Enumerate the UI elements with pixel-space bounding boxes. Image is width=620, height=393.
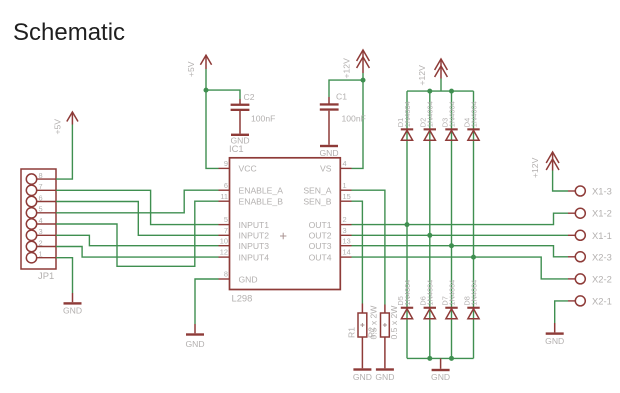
terminal X1-1 (568, 230, 612, 241)
svg-text:GND: GND (63, 306, 82, 316)
svg-text:1N4004: 1N4004 (426, 101, 435, 127)
IC1 pin VCC 9 (219, 159, 257, 174)
terminal X1-2 (568, 208, 612, 219)
svg-text:13: 13 (343, 236, 351, 245)
diode D6 (419, 280, 436, 319)
svg-text:IC1: IC1 (229, 143, 244, 154)
terminal X2-1 (568, 295, 612, 306)
IC1 pin GND 8 (219, 270, 258, 285)
svg-text:X1-1: X1-1 (592, 230, 612, 241)
junction OUT2/D2 (427, 233, 432, 238)
svg-text:GND: GND (375, 372, 394, 382)
svg-text:GND: GND (431, 372, 450, 382)
svg-text:14: 14 (343, 248, 351, 257)
svg-text:JP1: JP1 (38, 270, 54, 281)
JP1 pin 7 pad (26, 182, 56, 195)
junction bus/D2 (427, 89, 432, 94)
IC1 origin cross (280, 233, 286, 239)
wire D3/D7 column (451, 91, 453, 358)
wire SEN_A to R2 (352, 190, 385, 304)
wire OUT1 to X1-2 (352, 213, 569, 224)
capacitor C1 (320, 92, 366, 145)
diode D7 (440, 280, 457, 319)
JP1 pin 4 pad (26, 216, 56, 229)
wire junction to C1 (329, 80, 363, 97)
wire OUT4 to X2-2 (352, 257, 569, 279)
svg-text:Schematic: Schematic (13, 19, 125, 46)
wire JP1.8 to +5V (56, 125, 72, 180)
svg-text:VCC: VCC (239, 164, 257, 174)
svg-text:INPUT1: INPUT1 (239, 220, 270, 230)
svg-text:6: 6 (224, 181, 228, 190)
diode D8 (462, 280, 479, 319)
svg-text:5: 5 (39, 205, 43, 214)
IC1 pin INPUT3 10 (219, 236, 270, 251)
svg-text:+12V: +12V (530, 157, 540, 178)
svg-text:+12V: +12V (417, 65, 427, 86)
wire OUT3 to X2-3 (352, 246, 569, 257)
svg-text:OUT4: OUT4 (309, 253, 332, 263)
svg-text:12: 12 (220, 248, 228, 257)
svg-text:1: 1 (39, 250, 43, 259)
JP1 pin 1 pad (26, 250, 56, 263)
svg-text:+5V: +5V (186, 61, 196, 77)
wire JP1.3 to INPUT3 (56, 235, 219, 245)
svg-text:GND: GND (185, 339, 204, 349)
ground below JP1 (63, 293, 82, 316)
svg-text:1N4004: 1N4004 (447, 101, 456, 127)
+12V supply symbol above diodes (417, 59, 447, 86)
ground below X2-1 (545, 323, 564, 346)
IC1 pin SEN_A 1 (303, 181, 351, 196)
svg-text:100nF: 100nF (342, 114, 366, 124)
svg-text:11: 11 (220, 192, 228, 201)
svg-text:3: 3 (39, 227, 43, 236)
svg-text:INPUT4: INPUT4 (239, 253, 270, 263)
IC1 pin VS 4 (320, 159, 351, 174)
diode D5 (396, 280, 413, 319)
terminal X2-2 (568, 273, 612, 284)
svg-text:9: 9 (224, 159, 228, 168)
IC1 pin OUT1 2 (309, 215, 352, 230)
svg-text:10: 10 (220, 236, 228, 245)
svg-text:ENABLE_A: ENABLE_A (239, 186, 284, 196)
wire D4/D8 column (473, 91, 475, 358)
resistor R1 (346, 304, 378, 369)
junction OUT1/D1 (405, 222, 410, 227)
svg-text:2: 2 (343, 215, 347, 224)
svg-text:1N4004: 1N4004 (447, 280, 456, 306)
svg-text:8: 8 (39, 171, 43, 180)
svg-text:6: 6 (39, 193, 43, 202)
wire +12V to X1-3 (553, 171, 568, 192)
svg-text:GND: GND (319, 148, 338, 158)
svg-text:R1: R1 (346, 327, 356, 338)
svg-text:4: 4 (343, 159, 347, 168)
wire +5V to IC1 VCC (206, 69, 219, 168)
diode D2 (419, 101, 436, 140)
wire SEN_B to R1 (352, 201, 363, 303)
svg-text:ENABLE_B: ENABLE_B (239, 197, 284, 207)
junction +12V/C1 (361, 78, 366, 83)
svg-text:R2: R2 (366, 327, 376, 338)
junction bus/D7 (449, 356, 454, 361)
junction OUT3/D3 (449, 243, 454, 248)
wire +12V diode bus (407, 90, 474, 92)
wire junction to C2 (206, 90, 240, 99)
svg-text:7: 7 (39, 182, 43, 191)
svg-text:OUT2: OUT2 (309, 231, 332, 241)
op IC1 L298 body (230, 158, 341, 290)
svg-text:1N4004: 1N4004 (403, 101, 412, 127)
ground below R1 (353, 368, 372, 382)
svg-text:L298: L298 (232, 293, 253, 304)
svg-text:INPUT2: INPUT2 (239, 231, 270, 241)
wire JP1.6 to INPUT2 (56, 202, 219, 236)
JP1 pin 2 pad (26, 238, 56, 251)
wire JP1.2 to INPUT4 (56, 247, 219, 258)
wire D1/D5 column (406, 91, 408, 358)
ground below IC1 (185, 324, 204, 349)
+12V supply symbol above C1 (342, 50, 370, 79)
svg-text:5: 5 (224, 215, 228, 224)
junction +5V/C2 (204, 88, 209, 93)
terminal X2-3 (568, 251, 612, 262)
ground below C2 (230, 134, 249, 146)
svg-text:INPUT3: INPUT3 (239, 241, 270, 251)
JP1 pin 5 pad (26, 205, 56, 218)
junction bus/D3 (449, 89, 454, 94)
diode D3 (440, 101, 457, 140)
svg-text:+5V: +5V (53, 119, 63, 135)
wire JP1.1 to ground (56, 258, 73, 293)
wire JP1.7 to INPUT1 (56, 190, 219, 224)
IC1 pin INPUT4 12 (219, 248, 270, 263)
wire X2-1 to ground (555, 301, 568, 323)
svg-text:0.5 x 2W: 0.5 x 2W (389, 305, 399, 340)
svg-text:8: 8 (224, 270, 228, 279)
ground below R2 (375, 368, 394, 382)
svg-text:OUT1: OUT1 (309, 220, 332, 230)
svg-text:X2-1: X2-1 (592, 295, 612, 306)
junction bus/D6 (427, 356, 432, 361)
svg-text:GND: GND (353, 372, 372, 382)
IC1 pin ENABLE_B 11 (219, 192, 284, 207)
svg-text:1N4004: 1N4004 (469, 280, 478, 306)
IC1 pin OUT4 14 (309, 248, 352, 263)
svg-text:+12V: +12V (342, 58, 352, 79)
wire IC1 GND to ground (195, 279, 219, 324)
svg-text:VS: VS (320, 164, 332, 174)
JP1 pin 3 pad (26, 227, 56, 240)
svg-text:GND: GND (545, 336, 564, 346)
IC1 pin OUT3 13 (309, 236, 352, 251)
+5V supply symbol at JP1 (53, 112, 79, 135)
svg-text:X2-2: X2-2 (592, 273, 612, 284)
svg-text:2: 2 (39, 238, 43, 247)
wire +12V to IC1 VS (352, 73, 364, 168)
IC1 pin INPUT2 7 (219, 226, 270, 241)
svg-text:GND: GND (239, 274, 258, 284)
svg-text:1N4004: 1N4004 (426, 280, 435, 306)
+12V supply symbol at X1-3 (530, 152, 559, 178)
svg-text:X2-3: X2-3 (592, 251, 612, 262)
svg-text:4: 4 (39, 216, 43, 225)
svg-text:X1-3: X1-3 (592, 186, 612, 197)
diode D1 (396, 101, 413, 140)
wire OUT2 to X1-1 (352, 234, 569, 236)
+5V supply symbol above C2 (186, 55, 212, 77)
resistor R2 (366, 305, 398, 369)
ground below diode bus (431, 358, 450, 382)
wire JP1.4 to ENABLE_B (56, 201, 219, 266)
svg-text:15: 15 (343, 192, 351, 201)
wire D2/D6 column (429, 91, 431, 358)
diode D4 (462, 101, 479, 140)
svg-text:X1-2: X1-2 (592, 208, 612, 219)
terminal X1-3 (568, 186, 612, 197)
svg-text:1N4004: 1N4004 (403, 280, 412, 306)
svg-text:100nF: 100nF (251, 114, 275, 124)
connector JP1 body (21, 169, 56, 269)
svg-text:C2: C2 (244, 92, 255, 102)
wire +12V to diode bus (440, 79, 442, 92)
IC1 pin SEN_B 15 (303, 192, 351, 207)
svg-text:1: 1 (343, 181, 347, 190)
ground below C1 (319, 145, 338, 158)
svg-text:7: 7 (224, 226, 228, 235)
IC1 pin INPUT1 5 (219, 215, 270, 230)
svg-text:OUT3: OUT3 (309, 241, 332, 251)
IC1 pin ENABLE_A 6 (219, 181, 284, 196)
wire JP1.5 to ENABLE_A (56, 190, 219, 213)
capacitor C2 (231, 92, 276, 134)
svg-text:C1: C1 (336, 92, 347, 102)
wire bottom GND bus (407, 357, 474, 359)
svg-text:3: 3 (343, 226, 347, 235)
IC1 pin OUT2 3 (309, 226, 352, 241)
junction OUT4/D4 (471, 255, 476, 260)
JP1 pin 8 pad (26, 171, 56, 184)
svg-text:1N4004: 1N4004 (469, 101, 478, 127)
JP1 pin 6 pad (26, 193, 56, 206)
svg-text:SEN_A: SEN_A (303, 186, 331, 196)
svg-text:SEN_B: SEN_B (303, 197, 331, 207)
